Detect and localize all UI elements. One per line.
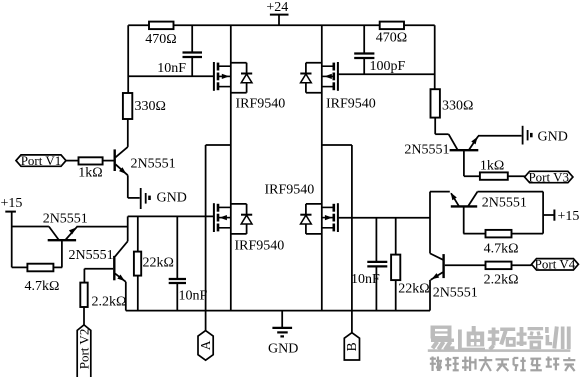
svg-text:22kΩ: 22kΩ [398, 282, 429, 297]
watermark subtitle (gray) [430, 357, 575, 372]
svg-text:+15: +15 [558, 209, 580, 224]
top power rail +24 [128, 24, 435, 26]
svg-text:4.7kΩ: 4.7kΩ [25, 279, 60, 294]
ground symbol (left, battery style) [141, 188, 187, 209]
svg-text:IRF9540: IRF9540 [265, 183, 315, 198]
wire: left gate feed [128, 75, 213, 77]
svg-text:470Ω: 470Ω [145, 32, 176, 47]
wire: right gate node vertical [429, 192, 431, 254]
wire: Q5 base lead [463, 206, 465, 233]
svg-text:330Ω: 330Ω [442, 99, 473, 114]
capacitor C4 10nF (bottom right) [351, 218, 387, 311]
resistor R6 4.7k&#937; [12, 264, 63, 294]
transistor Q2 2N5551 (left driver top) [48, 227, 77, 241]
svg-text:B: B [344, 342, 359, 351]
svg-text:GND: GND [538, 130, 568, 145]
right rail wire down [434, 25, 436, 89]
capacitor C1 10nF (top left) [157, 25, 202, 76]
bottom ground rail [126, 310, 430, 312]
wire: +15 to Q2 collector [12, 226, 49, 228]
svg-text:IRF9540: IRF9540 [236, 96, 286, 111]
port tag A [198, 331, 213, 361]
svg-text:2N5551: 2N5551 [482, 196, 527, 211]
wire: lower-right gate wire [339, 217, 430, 219]
ground symbol (bottom, earth style) [268, 311, 298, 357]
svg-text:IRF9540: IRF9540 [326, 96, 376, 111]
resistor R2 470&#937; (right) [376, 22, 407, 46]
svg-text:GND: GND [157, 191, 187, 206]
port tag Port V1 [16, 153, 66, 168]
watermark logo text (gray) [431, 326, 571, 352]
svg-text:1kΩ: 1kΩ [480, 159, 504, 174]
wire: Q6 emitter down [429, 280, 431, 311]
svg-text:2N5551: 2N5551 [131, 157, 176, 172]
wire: lower-left gate wire [128, 215, 214, 217]
resistor R10 1k&#937; (right) [480, 159, 525, 180]
svg-text:2N5551: 2N5551 [69, 248, 114, 263]
capacitor C3 10nF (bottom left) [169, 216, 208, 310]
svg-text:+15: +15 [1, 196, 23, 211]
+15 supply terminal (left) [1, 196, 23, 227]
ground symbol (right, battery style) [523, 126, 568, 145]
svg-text:2.2kΩ: 2.2kΩ [484, 273, 519, 288]
svg-text:IRF9540: IRF9540 [235, 239, 285, 254]
watermark underline [428, 349, 571, 352]
wire: +15 down to 4.7k [11, 227, 13, 268]
port tag Port V4 [532, 257, 579, 272]
transistor Q3 2N5551 (left driver bottom) [114, 241, 127, 281]
wire: 330R to Q4 [434, 118, 436, 135]
svg-text:100pF: 100pF [370, 59, 406, 74]
svg-text:Port V2: Port V2 [76, 329, 91, 370]
svg-text:330Ω: 330Ω [135, 99, 166, 114]
node B branch wire [322, 144, 352, 146]
resistor R7 22k&#937; (left) [134, 216, 174, 310]
capacitor C2 100pF (top right) [354, 25, 405, 74]
resistor R11 4.7k&#937; (right) [463, 230, 543, 257]
resistor R8 2.2k&#937; [80, 269, 126, 326]
port tag Port V3 [525, 169, 573, 184]
MOSFET U4 IRF9540 (bottom right) [322, 203, 338, 232]
transistor Q1 2N5551 (top left) [115, 147, 128, 175]
resistor R1 470&#937; (left) [145, 22, 176, 47]
transistor Q5 2N5551 (right driver top) [451, 192, 478, 207]
port tag Port V2 [76, 325, 91, 377]
body diode of MOSFET U4 IRF9540 (bottom right) [300, 204, 322, 234]
resistor R9 22k&#937; (right) [391, 218, 430, 311]
body diode of MOSFET U2 IRF9540 (top right) [300, 63, 322, 93]
svg-text:10nF: 10nF [179, 289, 208, 304]
wire: left bridge leg (drain/source line) [230, 25, 232, 310]
wire: Q1 emitter to GND [127, 175, 129, 198]
svg-text:Port V3: Port V3 [528, 169, 569, 184]
resistor R3 330&#937; (left) [123, 93, 166, 119]
svg-text:2N5551: 2N5551 [43, 212, 88, 227]
wire: Q3 emitter down [125, 282, 127, 311]
+24 supply terminal [266, 0, 288, 25]
svg-text:Port V1: Port V1 [21, 153, 62, 168]
left rail wire down from +24 rail [127, 25, 129, 93]
svg-text:2N5551: 2N5551 [404, 143, 449, 158]
svg-text:10nF: 10nF [351, 272, 380, 287]
resistor R12 2.2k&#937; (right) [484, 262, 532, 288]
node A branch wire [206, 144, 231, 146]
body diode of MOSFET U1 IRF9540 (top left) [231, 63, 252, 93]
wire: right bridge leg (drain/source line) [321, 25, 323, 310]
resistor R5 1k&#937; [66, 157, 114, 180]
wire: Q4 base to 1k [463, 150, 465, 176]
svg-text:1kΩ: 1kΩ [78, 166, 102, 181]
wire: Q2 emitter to gate node [77, 226, 128, 228]
svg-text:4.7kΩ: 4.7kΩ [484, 242, 519, 257]
transistor Q6 2N5551 (right driver bottom) [430, 253, 444, 280]
wire: Q5 collector loop to +15 [478, 191, 544, 193]
MOSFET U3 IRF9540 (bottom left) [214, 203, 231, 232]
MOSFET U1 IRF9540 (top left) [214, 62, 231, 91]
svg-text:10nF: 10nF [157, 61, 186, 76]
svg-text:Port V4: Port V4 [535, 257, 576, 272]
wire: gate node vertical [127, 216, 129, 241]
svg-text:+24: +24 [266, 0, 288, 15]
resistor R4 330&#937; (right) [431, 89, 474, 117]
wire: right gate feed [339, 73, 435, 75]
wire: Q5 emitter wire [430, 191, 450, 193]
port tag B [344, 333, 359, 360]
transistor Q4 2N5551 (top right) [449, 134, 479, 150]
svg-text:A: A [198, 340, 213, 350]
MOSFET U2 IRF9540 (top right) [322, 62, 338, 91]
svg-text:GND: GND [268, 342, 298, 357]
svg-text:470Ω: 470Ω [376, 31, 407, 46]
wire: Q3 base [84, 268, 113, 270]
body diode of MOSFET U3 IRF9540 (bottom left) [231, 204, 252, 234]
+15 supply terminal (right) [543, 209, 579, 224]
wire: Q6 base to 2.2k [445, 264, 486, 266]
svg-text:22kΩ: 22kΩ [143, 255, 174, 270]
wire: Q4 emitter to GND [478, 135, 522, 137]
svg-text:2N5551: 2N5551 [433, 286, 478, 301]
wire: Q2 base lead [61, 240, 63, 267]
svg-text:2.2kΩ: 2.2kΩ [92, 295, 127, 310]
